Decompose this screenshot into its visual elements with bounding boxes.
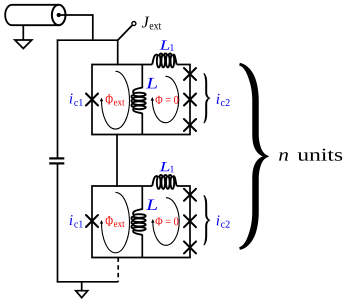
label L (unit 1) [146, 78, 157, 88]
josephson junction i_c2 c (unit 1) [184, 119, 196, 131]
label i_c2 (unit 2) [217, 215, 220, 225]
josephson junction i_c1 (unit 2) [86, 215, 98, 227]
ground (bottom) [76, 282, 88, 298]
wire (dashed continuation) [117, 258, 119, 282]
label n units [279, 152, 288, 160]
inductor L1 (unit 1) [152, 53, 176, 67]
wire (unit 1 to unit 2) [116, 135, 118, 187]
label i_c1 (unit 1) [70, 93, 73, 103]
josephson junction i_c1 (unit 1) [86, 94, 98, 106]
switch to node J_ext [118, 25, 132, 40]
wire (unit 2 middle branch lower) [141, 234, 143, 257]
inductor L (unit 2) [131, 209, 145, 235]
flux loop Phi=0 (unit 1) [152, 76, 178, 122]
label L (unit 2) [146, 200, 157, 210]
label Phi=0 (unit 2) [156, 217, 179, 225]
inductor L (unit 1) [131, 88, 145, 114]
label i_c2 (unit 1) [217, 94, 220, 104]
label Phi_ext (unit 1) [106, 94, 113, 104]
josephson junction i_c2 a (unit 2) [184, 189, 196, 201]
unit 1 outer loop wire [92, 65, 190, 135]
wire (left rail upper) [57, 39, 59, 158]
label J_ext [142, 17, 150, 28]
label i_c1 (unit 2) [70, 215, 73, 225]
flux loop Phi=0 (unit 2) [153, 198, 179, 246]
flux loop Phi_ext (unit 2) [101, 192, 129, 252]
wire (bus to unit 1) [117, 40, 119, 65]
label L1 (unit 2) [160, 162, 170, 171]
josephson junction i_c2 c (unit 2) [184, 241, 196, 253]
josephson junction i_c2 b (unit 2) [184, 215, 196, 227]
flux loop Phi_ext (unit 1) [101, 71, 129, 129]
node J_ext (open terminal) [132, 22, 136, 26]
wire (top bus) [57, 39, 118, 41]
brace for i_c2 (unit 1) [203, 73, 210, 123]
brace for i_c2 (unit 2) [203, 195, 210, 245]
ground (below source) [15, 25, 32, 48]
wire (left rail lower) [57, 163, 59, 282]
wire (bottom return) [57, 281, 118, 283]
wire (unit 1 middle branch upper) [141, 65, 143, 89]
inductor L1 (unit 2) [152, 175, 176, 189]
capacitor C [49, 158, 64, 163]
josephson junction i_c2 a (unit 1) [184, 68, 196, 80]
current source (coaxial drive line) [5, 5, 65, 25]
josephson junction i_c2 b (unit 1) [184, 94, 196, 106]
label Phi_ext (unit 2) [106, 216, 113, 226]
unit 2 outer loop wire [92, 186, 190, 258]
label L1 (unit 1) [160, 40, 170, 49]
label Phi=0 (unit 1) [156, 96, 179, 104]
brace n units [239, 63, 269, 250]
wire (source output to bus) [59, 15, 93, 40]
wire (unit 1 middle branch lower) [141, 113, 143, 135]
wire (unit 2 middle branch upper) [141, 186, 143, 210]
